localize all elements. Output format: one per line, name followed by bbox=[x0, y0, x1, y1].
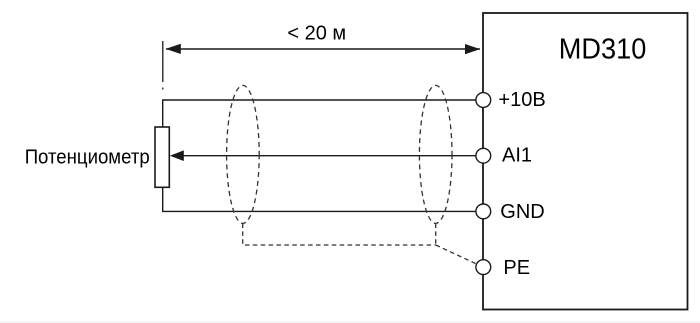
svg-text:AI1: AI1 bbox=[502, 144, 532, 166]
wire: potentiometer bottom lead to GND terminal bbox=[163, 187, 476, 211]
drive unit box U1 MD310 bbox=[483, 13, 688, 310]
terminal circle AI1 bbox=[476, 148, 491, 163]
svg-text:PE: PE bbox=[503, 257, 530, 279]
dimension line < 20 m bbox=[166, 44, 481, 54]
dimension extension line bbox=[162, 41, 164, 90]
svg-text:Потенциометр: Потенциометр bbox=[25, 146, 150, 168]
terminal circle GND bbox=[476, 204, 491, 219]
wire: AI1 wiper with arrow into potentiometer bbox=[170, 150, 476, 161]
shield drain wire (dashed) to PE bbox=[243, 224, 477, 265]
faint bottom screenshot edge bbox=[0, 321, 700, 323]
cable shield ellipse 1 bbox=[227, 85, 260, 223]
svg-text:+10В: +10В bbox=[498, 89, 545, 111]
terminal circle +10B bbox=[476, 93, 491, 108]
svg-text:GND: GND bbox=[500, 201, 544, 223]
svg-text:< 20 м: < 20 м bbox=[287, 22, 346, 44]
potentiometer R body bbox=[155, 127, 169, 187]
svg-text:MD310: MD310 bbox=[559, 34, 647, 66]
terminal circle PE bbox=[476, 260, 491, 275]
wire: potentiometer top lead to +10B terminal bbox=[163, 100, 476, 127]
cable shield ellipse 2 bbox=[419, 85, 452, 223]
